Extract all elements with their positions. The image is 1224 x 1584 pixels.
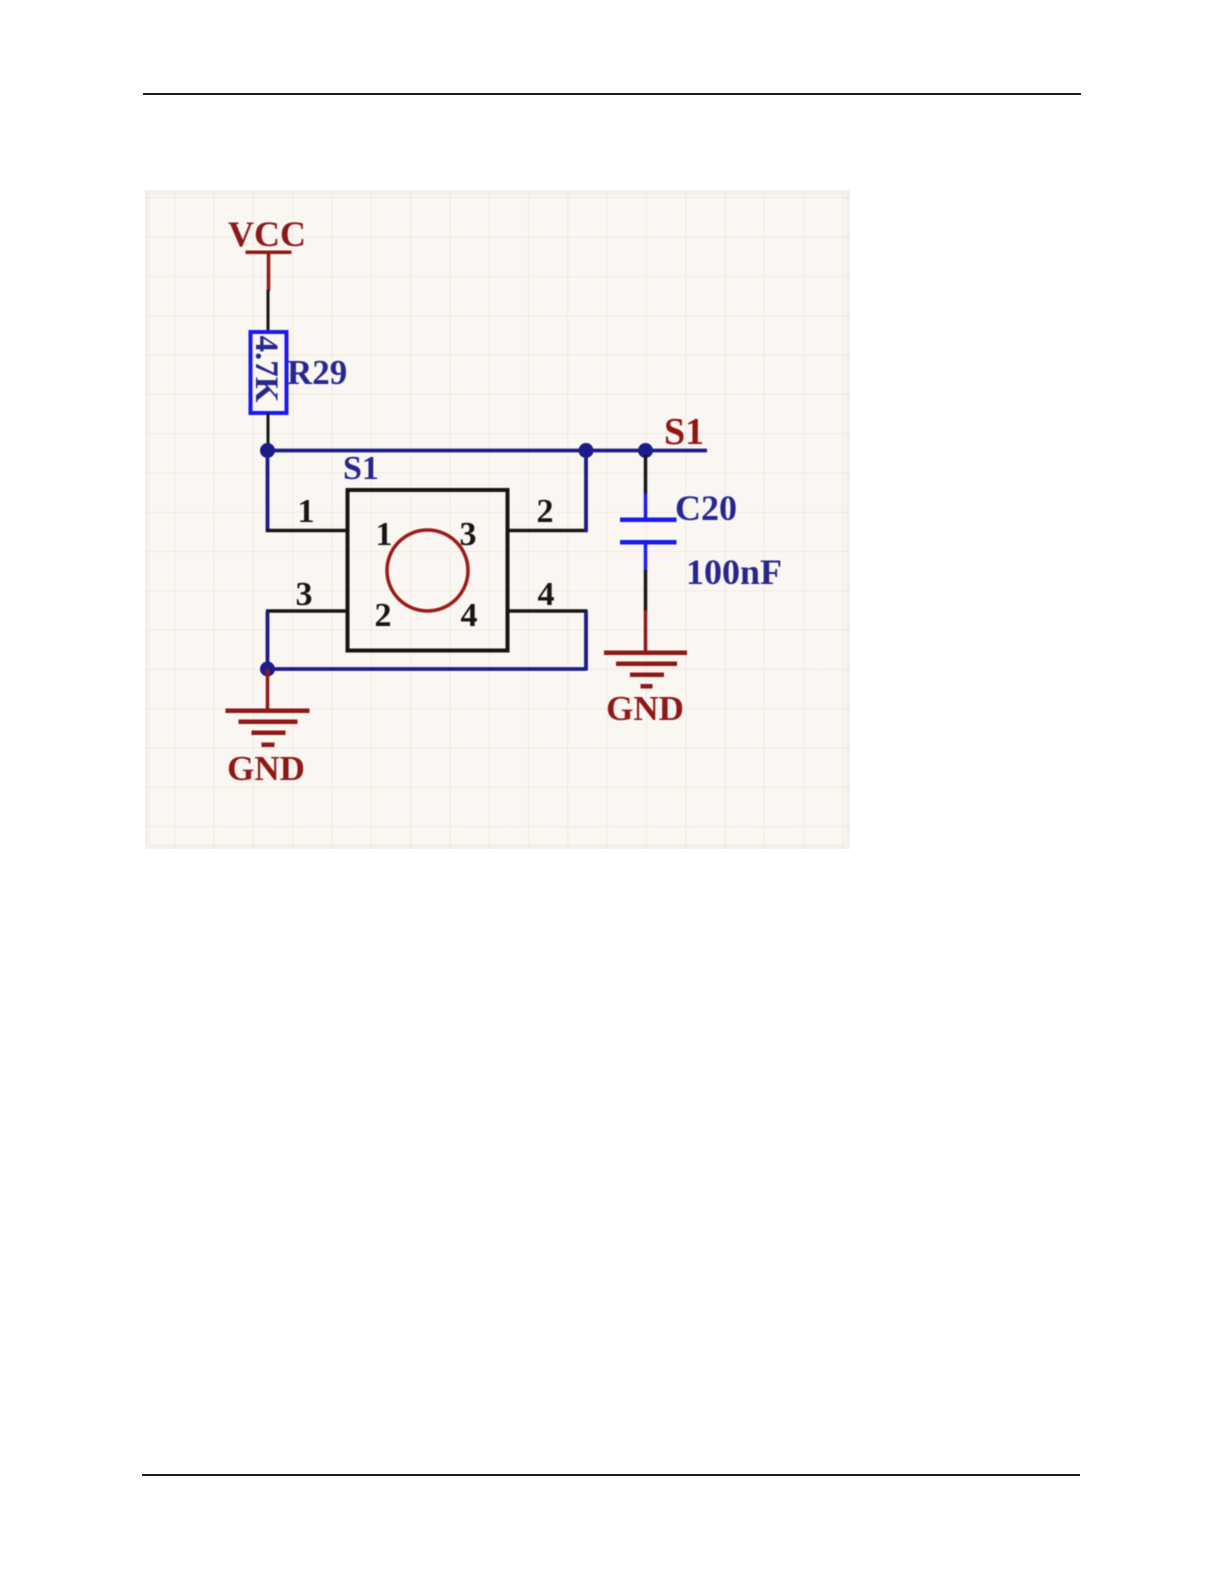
svg-text:S1: S1 [664,411,704,453]
svg-text:2: 2 [375,597,392,634]
bottom horizontal rule [142,1474,1080,1476]
wire R29 bottom lead [267,413,270,450]
power flag VCC bar [246,251,292,255]
pin 3 stub [266,609,348,613]
ground symbol right [604,651,687,689]
capacitor C20 top plate [620,518,677,523]
pin 1 stub [266,529,348,533]
power flag VCC stub [267,252,271,291]
wire bottom horizontal [268,667,587,671]
wire right vertical pin4 down [584,611,588,671]
wire right vertical pin2 to net [584,451,588,533]
wire net S1 horizontal [268,449,708,453]
svg-text:3: 3 [460,516,477,553]
wire C20 top lead blue [644,493,648,518]
schematic grid background [145,190,850,849]
ground stub left [266,669,270,711]
top horizontal rule [143,93,1081,95]
svg-text:C20: C20 [675,488,737,528]
svg-text:VCC: VCC [228,214,306,254]
switch S1 button circle [387,530,468,611]
svg-text:1: 1 [376,516,393,553]
wire left vertical to pin 1 [266,451,270,533]
junction node C (C20 branch) [638,443,653,458]
svg-text:S1: S1 [343,450,379,487]
wire C20 bottom lead black [644,570,648,611]
junction node B (pin2 branch) [579,443,594,458]
pin 2 stub [507,529,588,533]
svg-text:GND: GND [227,749,305,788]
resistor R29 body [251,332,287,413]
svg-text:R29: R29 [287,353,347,392]
wire C20 bottom lead red [644,610,648,653]
svg-text:2: 2 [537,493,554,530]
junction node D (pin3 / GND) [260,662,275,677]
switch S1 body [348,490,508,651]
svg-text:1: 1 [298,493,315,530]
svg-text:4: 4 [538,576,555,613]
svg-text:3: 3 [296,576,313,613]
wire C20 top lead black [644,455,648,494]
svg-text:4.7K: 4.7K [248,336,284,403]
svg-text:100nF: 100nF [686,552,782,592]
pin 4 stub [507,609,588,613]
ground symbol left [226,709,310,748]
wire C20 bottom lead blue [644,545,648,572]
capacitor C20 bottom plate [620,540,677,545]
wire left vertical pin3 to junction [266,611,270,669]
wire VCC to R29 top lead [267,290,270,333]
svg-text:4: 4 [461,597,478,634]
junction node A (R29 / net S1) [260,443,275,458]
svg-text:GND: GND [606,689,684,728]
